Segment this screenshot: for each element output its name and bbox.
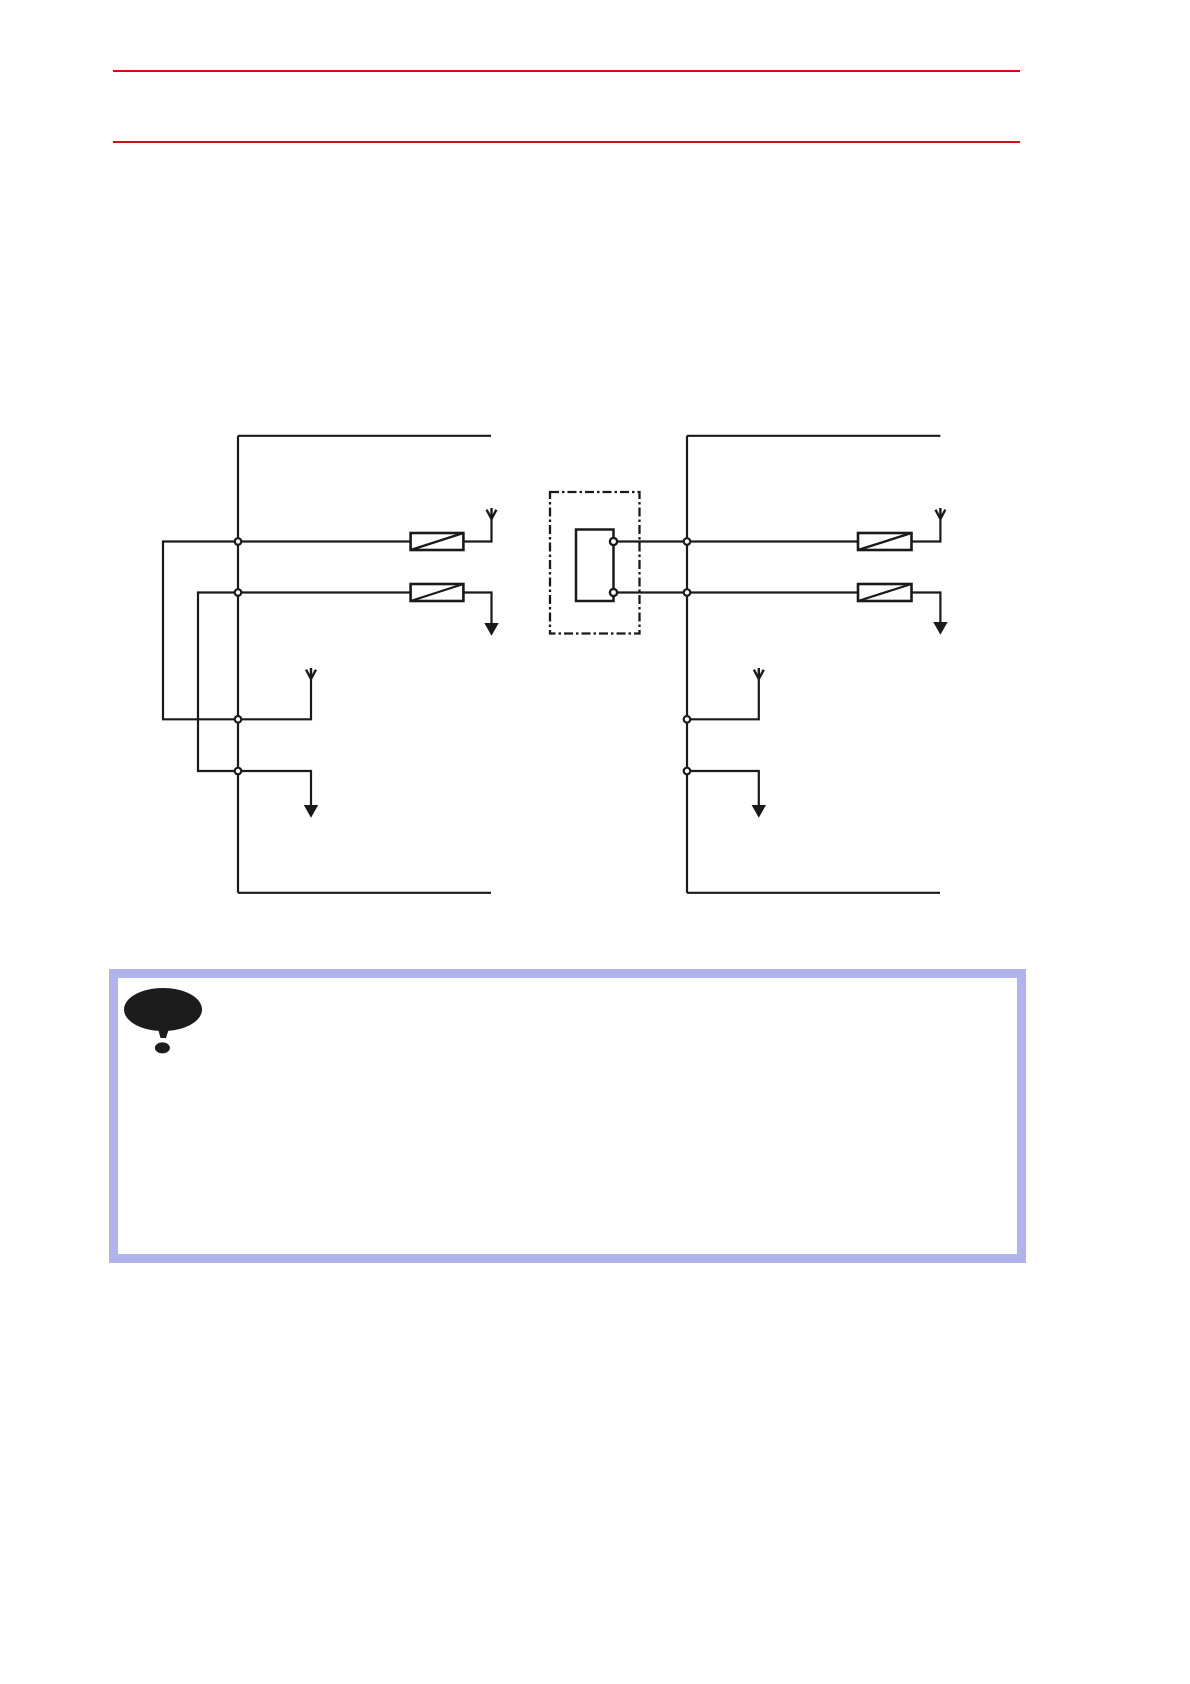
wire: node L1 left jog to node L3 [163, 542, 238, 720]
node R1 [684, 538, 691, 545]
note box [109, 969, 1026, 1263]
shorting connector enclosure (dash-dot box) [550, 492, 640, 634]
noise filter F1 [411, 533, 464, 550]
node R3 [684, 716, 691, 723]
ground arrow G2 (filled) [304, 805, 318, 818]
antenna continuation arrow A4 [754, 668, 764, 679]
antenna continuation arrow A3 [936, 508, 946, 519]
antenna continuation arrow A1 [487, 508, 497, 519]
wire: node L3 to antenna stub [238, 679, 311, 719]
node L4 [235, 768, 242, 775]
wire: node R4 to ground arrow [687, 771, 759, 805]
noise filter F3 [858, 533, 912, 550]
jumper pin 1 [610, 538, 617, 545]
noise filter F4 [858, 584, 912, 601]
header rule top [113, 70, 1020, 73]
ground arrow G1 (filled) [484, 623, 498, 636]
right unit top edge wire [687, 435, 940, 437]
right unit bottom edge wire [687, 892, 940, 894]
wire: node R1 to noise filter F3 [687, 540, 858, 542]
ground arrow G4 (filled) [752, 805, 766, 818]
noise filter F2 [411, 584, 464, 601]
wire: node R2 to noise filter F4 [687, 591, 858, 593]
left unit bottom edge wire [238, 892, 491, 894]
wire: node L2 left jog to node L4 [198, 593, 238, 772]
ground arrow G3 (filled) [933, 622, 947, 635]
wire: jumper pin 2 to node R2 [617, 591, 687, 593]
wire: F4 to ground arrow [912, 593, 941, 623]
antenna continuation arrow A2 [306, 668, 316, 679]
right unit vertical bus wire [686, 436, 688, 893]
wire: left node L1 to noise filter F1 [238, 540, 411, 542]
wire: F2 to ground arrow [463, 593, 491, 624]
node L1 [235, 538, 242, 545]
node L3 [235, 716, 242, 723]
wire: node R3 to antenna stub [687, 679, 759, 719]
wire: left node L2 to noise filter F2 [238, 591, 411, 593]
header rule bottom [113, 141, 1020, 143]
shorting jumper body [576, 530, 614, 602]
wire: F1 to antenna stub [463, 519, 491, 542]
node L2 [235, 589, 242, 596]
note balloon icon [118, 983, 213, 1058]
wire: F3 to antenna stub [912, 519, 941, 542]
left unit top edge wire [238, 435, 491, 437]
node R2 [684, 589, 691, 596]
jumper pin 2 [610, 589, 617, 596]
wire: jumper pin 1 to node R1 [617, 540, 687, 542]
node R4 [684, 768, 691, 775]
wire: node L4 to ground arrow [238, 771, 311, 805]
left unit vertical bus wire [237, 436, 239, 893]
